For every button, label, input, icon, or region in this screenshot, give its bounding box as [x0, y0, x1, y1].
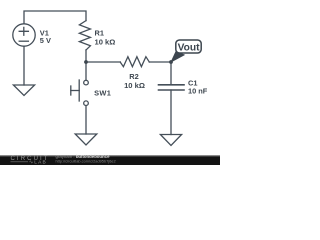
svg-text:http://circuitlab.com/c/2ad95b: http://circuitlab.com/c/2ad95b7j6e2 [56, 158, 116, 163]
svg-text:10 kΩ: 10 kΩ [124, 81, 145, 90]
svg-text:5 V: 5 V [40, 36, 51, 45]
svg-text:Vout: Vout [178, 43, 200, 54]
svg-text:∿LAB: ∿LAB [29, 160, 47, 165]
svg-text:R1: R1 [95, 29, 104, 38]
svg-text:10 kΩ: 10 kΩ [95, 37, 116, 46]
svg-text:10 nF: 10 nF [188, 87, 208, 96]
svg-text:R2: R2 [129, 72, 138, 81]
svg-text:SW1: SW1 [94, 88, 111, 97]
